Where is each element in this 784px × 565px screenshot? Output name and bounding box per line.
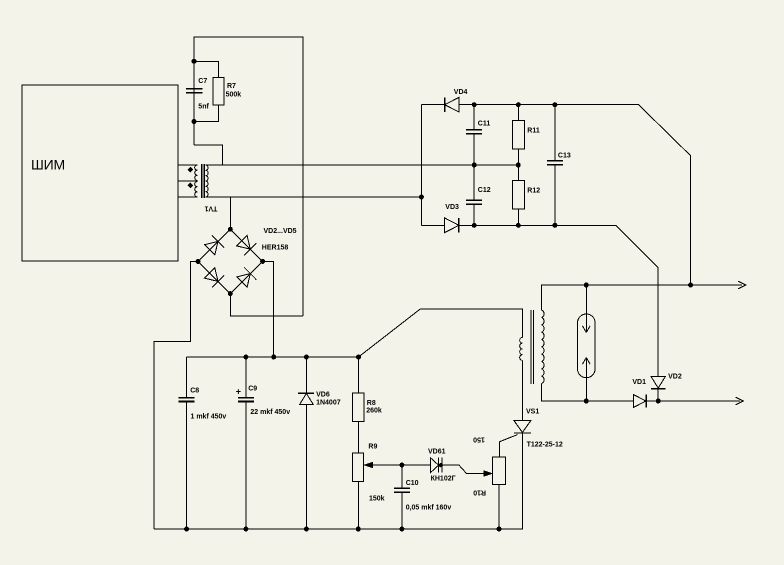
- junction C7/R7 bottom: [192, 120, 196, 124]
- transformer T2 primary winding: [520, 337, 523, 360]
- junction R12 bottom: [516, 223, 520, 227]
- junction descent on output 1: [689, 283, 693, 287]
- svg-text:0,05 mkf 160v: 0,05 mkf 160v: [406, 505, 452, 512]
- junction C13 top: [553, 103, 557, 107]
- wire T2 primary bottom to VS1 anode: [521, 360, 523, 420]
- svg-text:VS1: VS1: [526, 408, 539, 415]
- junction lamp bottom: [584, 399, 588, 403]
- svg-text:R10: R10: [473, 489, 486, 496]
- svg-text:R12: R12: [527, 188, 540, 195]
- diode VD3 triangle (points right): [445, 218, 459, 233]
- svg-text:5nf: 5nf: [198, 104, 209, 111]
- junction C11 top: [472, 103, 476, 107]
- bridge diode VD2 (left-top arm): [205, 241, 219, 255]
- wire TV1 secondary top rail: [206, 164, 519, 166]
- junction VD1/VD2: [656, 399, 660, 403]
- TV1 polarity mark winding 2: [188, 183, 192, 187]
- transformer T2 core: [531, 310, 534, 384]
- capacitor C10: [401, 465, 403, 529]
- diode VD6: [305, 357, 307, 529]
- bridge node top: [228, 227, 232, 231]
- junction C9 top: [244, 355, 248, 359]
- wire doubler bottom rail to VD2 descent: [421, 225, 658, 376]
- output arrow 1: [738, 281, 746, 289]
- capacitor C8: [186, 357, 188, 529]
- resistor R8: [357, 357, 359, 453]
- diode VD1 cathode bar: [645, 395, 647, 408]
- svg-text:150: 150: [473, 436, 485, 443]
- svg-text:R9: R9: [368, 444, 377, 451]
- resistor R7: [194, 61, 218, 121]
- wire C7 bottom jog to TV1 secondary top: [194, 145, 222, 165]
- R9 wiper arrow: [365, 462, 373, 467]
- svg-text:1N4007: 1N4007: [316, 399, 341, 406]
- resistor R10 body: [493, 457, 506, 485]
- capacitor C9: [245, 357, 247, 529]
- junction secondary bottom rail to doubler: [419, 195, 423, 199]
- junction C11/C12 mid rail: [472, 163, 476, 167]
- svg-text:1 mkf 450v: 1 mkf 450v: [191, 413, 227, 420]
- diode bridge diamond wires: [198, 229, 263, 293]
- svg-text:VD2: VD2: [668, 374, 682, 381]
- junction bridge-right vertical on top bus: [272, 355, 276, 359]
- svg-text:TV1: TV1: [204, 204, 217, 211]
- bridge node bottom: [228, 292, 232, 296]
- svg-text:C8: C8: [190, 387, 199, 394]
- diode VD4 cathode bar: [444, 97, 446, 112]
- junction C10 top / R9 wiper: [400, 463, 404, 467]
- capacitor C11: [473, 105, 475, 165]
- svg-text:R7: R7: [227, 83, 236, 90]
- wire T2 secondary bottom to VD1: [541, 384, 633, 402]
- junction R10 bottom: [497, 527, 501, 531]
- lamp EL1 bottom electrode arrow: [583, 358, 591, 402]
- potentiometer R9 body: [352, 453, 363, 482]
- junction R11 top: [516, 103, 520, 107]
- junction C10 bottom: [400, 527, 404, 531]
- svg-text:T122-25-12: T122-25-12: [527, 441, 563, 448]
- svg-text:+: +: [236, 387, 241, 397]
- svg-text:260k: 260k: [366, 408, 382, 415]
- svg-text:VD1: VD1: [632, 379, 646, 386]
- wire VD1 to output 2: [646, 400, 740, 402]
- junction VD6 bottom: [304, 527, 308, 531]
- bridge node left: [196, 259, 200, 263]
- diode VD4 triangle (points left): [445, 97, 459, 112]
- svg-text:C9: C9: [248, 386, 257, 393]
- diode VD2 cathode bar: [651, 388, 665, 390]
- wire TV1 secondary bottom rail: [206, 196, 422, 198]
- transformer T2 secondary winding: [541, 310, 544, 383]
- wire VD2 cathode to junction: [657, 389, 659, 401]
- svg-text:VD4: VD4: [454, 89, 468, 96]
- TV1 core: [202, 164, 205, 198]
- svg-text:ШИМ: ШИМ: [31, 157, 65, 173]
- wire bridge right node to top bus: [263, 261, 274, 357]
- junction C9 bottom: [244, 527, 248, 531]
- bridge diode VD5 (bottom-right arm): [237, 274, 251, 288]
- wire top bus C8 to R8: [187, 356, 359, 358]
- svg-text:HER158: HER158: [262, 244, 289, 251]
- wire snubber loop left vertical and top to right vertical: [194, 37, 303, 316]
- TV1 polarity mark winding 1: [188, 167, 192, 171]
- resistor R11: [517, 105, 519, 165]
- svg-text:C12: C12: [478, 187, 491, 194]
- svg-text:C10: C10: [406, 480, 419, 487]
- diode VD2 triangle (points down): [651, 376, 665, 388]
- svg-text:VD6: VD6: [316, 392, 330, 399]
- junction R11/R12 mid rail: [516, 163, 520, 167]
- svg-text:C7: C7: [198, 78, 207, 85]
- dinistor VD61 double bars: [439, 457, 443, 472]
- wire secondary bottom to bridge top: [229, 197, 231, 229]
- dinistor VD61 center dot: [439, 464, 442, 467]
- svg-text:500k: 500k: [226, 91, 242, 98]
- svg-text:VD3: VD3: [445, 204, 459, 211]
- diode VD1 triangle (points right): [634, 395, 646, 408]
- transformer TV1 primary winding 1: [195, 165, 198, 181]
- wire stubs PWM to TV1 primary windings: [178, 165, 197, 197]
- bridge diode VD3 (left-bottom arm): [205, 268, 219, 282]
- svg-text:R11: R11: [527, 127, 540, 134]
- wire C10 node to VD61 and on to R10: [402, 465, 485, 474]
- bridge diode VD4 (top-right arm): [237, 236, 251, 250]
- svg-text:КН102Г: КН102Г: [431, 476, 456, 483]
- wire R9 wiper: [371, 464, 402, 466]
- svg-text:VD61: VD61: [428, 448, 446, 455]
- wire doubler left vertical: [420, 105, 422, 226]
- thyristor VS1 cathode bar: [514, 432, 531, 434]
- svg-text:R8: R8: [367, 400, 376, 407]
- svg-text:22 mkf 450v: 22 mkf 450v: [250, 409, 290, 416]
- junction C7/R7 top: [192, 59, 196, 63]
- capacitor C12: [473, 165, 475, 225]
- junction C8 bottom: [185, 527, 189, 531]
- wire R10 top to VS1 gate: [500, 435, 518, 457]
- capacitor C7: [186, 89, 203, 93]
- wire bottom bus: [154, 433, 522, 529]
- wire R10 bottom to bus: [498, 485, 500, 529]
- arrow into R10: [484, 471, 492, 476]
- wire T2 secondary top to output 1: [541, 285, 742, 310]
- junction C12 bottom: [472, 223, 476, 227]
- transformer TV1 secondary winding: [206, 165, 209, 197]
- lamp EL1 envelope: [578, 314, 596, 378]
- svg-text:C11: C11: [478, 120, 491, 127]
- junction R8 top / diagonal: [357, 355, 361, 359]
- diode VD3 cathode bar: [458, 218, 460, 233]
- svg-text:C13: C13: [558, 153, 571, 160]
- wire bridge bottom node to right vertical: [230, 294, 303, 316]
- dinistor VD61 triangle: [430, 458, 438, 473]
- thyristor VS1 triangle: [514, 421, 531, 433]
- wire doubler top rail to right descent: [421, 105, 690, 285]
- PWM module box ШИМ: [22, 85, 178, 261]
- output arrow 2: [736, 397, 744, 405]
- wire diagonal top bus to T2 primary: [359, 309, 523, 357]
- junction VD6 top: [304, 355, 308, 359]
- wire bridge left node to bottom bus: [154, 261, 198, 529]
- resistor R12: [517, 165, 519, 225]
- lamp EL1 top electrode arrow: [583, 285, 591, 333]
- svg-text:150k: 150k: [369, 496, 385, 503]
- transformer TV1 primary winding 2: [195, 182, 198, 198]
- junction R9 bottom: [356, 527, 360, 531]
- bridge node right: [261, 259, 265, 263]
- junction C13 bottom: [553, 223, 557, 227]
- junction lamp top: [584, 283, 588, 287]
- capacitor C13: [554, 105, 556, 226]
- svg-text:VD2...VD5: VD2...VD5: [264, 228, 297, 235]
